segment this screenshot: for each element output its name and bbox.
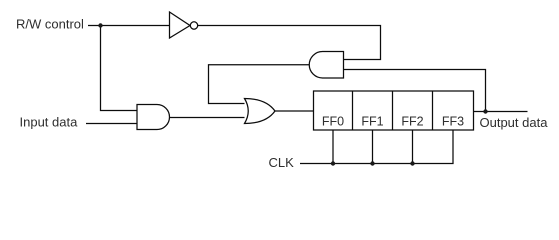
svg-text:FF0: FF0	[322, 115, 344, 129]
svg-text:R/W control: R/W control	[16, 17, 84, 32]
svg-text:FF1: FF1	[361, 115, 383, 129]
svg-text:FF2: FF2	[401, 115, 423, 129]
svg-text:Input data: Input data	[20, 115, 79, 130]
svg-text:CLK: CLK	[269, 155, 295, 170]
svg-text:FF3: FF3	[442, 115, 464, 129]
svg-text:Output data: Output data	[480, 115, 549, 130]
